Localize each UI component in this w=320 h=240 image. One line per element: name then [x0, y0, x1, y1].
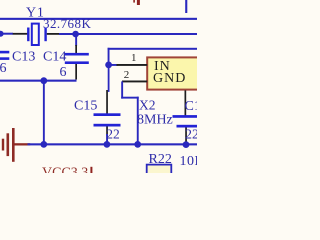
- node: junction dot (left vertical): [40, 141, 47, 148]
- capacitor C14 pin stub bottom (black): [75, 64, 77, 80]
- wire: left mid rail under C13/C14: [0, 80, 77, 82]
- label C14: [43, 50, 66, 65]
- pin name IN: [154, 59, 171, 74]
- label 32.768K: [43, 16, 91, 31]
- svg-text:C15: C15: [74, 99, 97, 114]
- svg-text:22: 22: [106, 126, 120, 141]
- wire: crystal net left segment: [0, 33, 13, 35]
- svg-text:1: 1: [131, 52, 137, 64]
- node: junction dot above C14: [72, 31, 79, 38]
- wire: vertical from pin1 node down toward C15: [108, 65, 110, 92]
- wire: vertical from left mid rail down to ground rail: [43, 81, 45, 145]
- power symbol stem (dark red, cut off): [90, 167, 92, 173]
- label X2: [139, 98, 156, 113]
- svg-text:6: 6: [60, 65, 67, 80]
- power label VCC3.3 (cut off at bottom): [42, 165, 88, 180]
- wire: C15 bottom to ground rail: [106, 134, 108, 145]
- net label fragment (dark red, cut off at top): [133, 0, 140, 5]
- svg-text:8MHz: 8MHz: [137, 112, 173, 127]
- svg-text:10K: 10K: [180, 154, 198, 169]
- wire: line B corner drop to pin1 node: [108, 48, 110, 65]
- node: junction dot on left mid rail: [40, 77, 47, 84]
- crystal Y1 symbol: [27, 24, 47, 45]
- node: left edge junction dot: [0, 31, 4, 37]
- pin number 2: [124, 69, 130, 81]
- value 6 (C13): [0, 61, 7, 76]
- capacitor C15 pin stub bottom (black): [106, 127, 108, 136]
- node: junction dot (C16): [183, 141, 190, 148]
- pin name GND: [153, 71, 186, 86]
- crystal Y1 pin 1 (left, black): [13, 33, 28, 35]
- pin number 1: [131, 52, 137, 64]
- svg-text:X2: X2: [139, 98, 156, 113]
- capacitor C16 (right edge, partially visible): [173, 115, 198, 127]
- value 22 (C16): [185, 128, 199, 143]
- svg-text:Y1: Y1: [26, 6, 45, 21]
- svg-text:VCC3.3: VCC3.3: [42, 165, 88, 173]
- svg-text:C16: C16: [185, 99, 198, 114]
- value 22 (C15): [106, 126, 120, 141]
- label C15: [74, 99, 97, 114]
- resistor R22 label: [149, 152, 172, 167]
- component pin to C16 (black, from box bottom): [185, 90, 187, 116]
- crystal Y1 pin 2 (right, black): [47, 33, 59, 35]
- value 10K (cut off at right): [180, 154, 206, 169]
- wire: top horizontal rail: [0, 18, 197, 20]
- label Y1: [26, 6, 45, 21]
- svg-text:C14: C14: [43, 50, 66, 65]
- capacitor C16 pin stub bottom (black): [185, 128, 187, 144]
- capacitor C15: [94, 113, 121, 126]
- wire: bottom ground rail: [28, 143, 198, 145]
- svg-text:C13: C13: [12, 50, 35, 65]
- node: junction dot (C15): [104, 141, 111, 148]
- node: junction dot (X2 wire): [134, 141, 141, 148]
- label C16: [185, 99, 208, 114]
- label 8MHz: [137, 112, 173, 127]
- wire: crystal net right long segment to right edge: [59, 33, 197, 35]
- capacitor C15 pin stub top (black): [106, 90, 108, 114]
- capacitor C14: [65, 53, 89, 64]
- svg-text:22: 22: [185, 128, 197, 143]
- wire: drop from junction to C14: [75, 34, 77, 46]
- capacitor C14 pin stub top (black): [75, 45, 77, 54]
- wire: pin2 to ground rail (down, right, down): [121, 81, 139, 144]
- pin 1 line (black): [117, 64, 148, 66]
- label C13: [12, 50, 35, 65]
- wire: line B horizontal to right edge: [108, 48, 197, 50]
- capacitor C13 (left edge, partially visible): [0, 51, 9, 60]
- wire: vertical stub top right (cut off): [185, 0, 187, 13]
- svg-text:6: 6: [0, 61, 7, 76]
- value 6 (C14): [60, 65, 67, 80]
- svg-text:2: 2: [124, 69, 130, 81]
- svg-text:GND: GND: [153, 71, 186, 86]
- svg-text:32.768K: 32.768K: [43, 16, 91, 31]
- ground symbol (power ground, pointing left): [2, 128, 30, 162]
- wire: short blue from dot to pin1: [109, 64, 118, 66]
- node: junction dot at pin 1: [105, 62, 112, 69]
- pin 2 line (black): [122, 81, 147, 83]
- component box (yellow, IN/GND): [147, 57, 199, 89]
- resistor R22 body (cut off at bottom): [147, 165, 172, 177]
